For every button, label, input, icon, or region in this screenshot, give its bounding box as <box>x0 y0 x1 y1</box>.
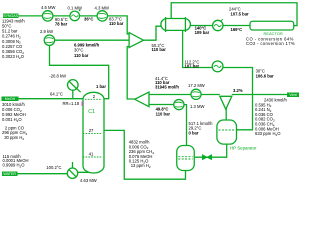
stream label Vent <box>287 92 299 97</box>
svg-text:SYNGAS: SYNGAS <box>3 14 19 18</box>
svg-text:HP Separator: HP Separator <box>230 146 257 151</box>
wire K2 to mixer M1 top inlet <box>107 16 129 34</box>
label reactor name <box>264 31 283 36</box>
wire splitter recycle to compressor B and mixer M2 <box>149 94 220 96</box>
label column tray 2 <box>93 94 96 99</box>
label stream E2 out <box>256 69 275 79</box>
label flash vapor stream <box>189 121 214 136</box>
wire K1 to cooler E1 <box>53 15 71 17</box>
valve V1 <box>203 155 212 160</box>
svg-text:0.001 H2O: 0.001 H2O <box>2 117 22 123</box>
label overhead pressure <box>96 84 106 89</box>
svg-text:CO2 - conversion 17%: CO2 - conversion 17% <box>246 41 295 46</box>
label stream E1 out <box>84 17 93 22</box>
wire HP separator vapor to splitter <box>225 109 227 121</box>
svg-text:27: 27 <box>89 128 94 133</box>
wire M1 outlet to HX cold inlet <box>144 26 162 40</box>
svg-text:4.6 MW: 4.6 MW <box>41 5 55 10</box>
label stream reactor out <box>229 7 249 17</box>
label stream HX hot out <box>185 59 200 68</box>
svg-text:169°C: 169°C <box>231 27 243 32</box>
svg-text:107 bar: 107 bar <box>185 64 200 69</box>
label condenser temp <box>50 91 63 96</box>
svg-text:13 ppm H2: 13 ppm H2 <box>131 163 151 169</box>
wire condenser link to column dome <box>69 81 81 92</box>
arrowhead into HX top <box>170 19 173 22</box>
svg-text:110 bar: 110 bar <box>156 112 171 117</box>
svg-text:64.1°C: 64.1°C <box>50 91 63 96</box>
wire column overhead vapor to compressor K3 <box>50 46 109 99</box>
heat exchanger HX shell <box>161 17 191 32</box>
compressor K2 <box>97 11 107 21</box>
wire E3 to reactor inlet <box>223 25 251 27</box>
splitter S1 <box>220 96 232 109</box>
wire reboiler stub <box>72 162 74 169</box>
label column tray 41 <box>89 151 94 156</box>
table vent composition <box>255 98 287 137</box>
svg-text:1.3 MW: 1.3 MW <box>190 104 204 109</box>
label reflux ratio <box>63 101 80 106</box>
mixer M2 <box>135 92 149 107</box>
svg-text:106.6 bar: 106.6 bar <box>256 74 275 79</box>
svg-text:110 bar: 110 bar <box>109 21 124 26</box>
table MeOH composition <box>2 102 28 141</box>
label duty E1 <box>68 5 82 10</box>
wire splitter purge to vent <box>232 94 287 96</box>
svg-text:0.9999 H2O: 0.9999 H2O <box>3 163 26 169</box>
compressor K3 <box>44 35 54 45</box>
label duty C <box>190 104 204 109</box>
wire E1 to K2 <box>79 15 98 17</box>
label duty condenser <box>49 74 66 79</box>
label duty K2 <box>95 5 109 10</box>
svg-text:0.1 MW: 0.1 MW <box>68 5 82 10</box>
distillation column C1 <box>83 92 104 173</box>
compressor C flash vapor <box>174 100 184 110</box>
label duty B <box>188 83 205 88</box>
label reactor conversions <box>246 36 295 46</box>
svg-text:100.2°C: 100.2°C <box>46 165 61 170</box>
svg-text:C1: C1 <box>88 109 95 115</box>
condenser <box>68 80 79 91</box>
cooler E1 <box>70 10 81 21</box>
svg-text:4.3 MW: 4.3 MW <box>95 5 109 10</box>
svg-text:1 bar: 1 bar <box>96 84 106 89</box>
stream label WATER <box>2 172 18 177</box>
reboiler <box>67 168 77 178</box>
wire K3 outlet to mixer M1 mid inlet <box>49 39 129 41</box>
label column tray 27 <box>89 128 94 133</box>
heater E3 <box>213 19 223 30</box>
svg-text:78 bar: 78 bar <box>55 22 68 27</box>
table column feed composition <box>129 140 155 169</box>
LP flash vessel <box>177 146 195 171</box>
svg-text:2.9 kW: 2.9 kW <box>40 29 53 34</box>
label HP Separator name <box>230 146 257 151</box>
mixer M1 <box>129 33 143 48</box>
label purge fraction <box>233 88 243 93</box>
svg-text:3.2%: 3.2% <box>233 88 243 93</box>
label bottoms temp <box>46 165 61 170</box>
svg-text:0.3023 H2O: 0.3023 H2O <box>2 54 25 60</box>
label stream M1 out <box>152 43 167 52</box>
label column name C1 <box>88 109 95 115</box>
svg-text:17.2 MW: 17.2 MW <box>188 83 205 88</box>
svg-text:110 bar: 110 bar <box>152 47 167 52</box>
wire recycle riser to mixer M1 bottom inlet <box>127 47 135 100</box>
compressor K1 <box>43 11 53 21</box>
svg-text:0 bar: 0 bar <box>189 130 199 135</box>
wire feed syngas to K1 <box>19 15 44 17</box>
svg-text:RR=1.18: RR=1.18 <box>63 101 80 106</box>
svg-text:WATER: WATER <box>3 172 16 176</box>
svg-text:109 bar: 109 bar <box>195 30 210 35</box>
svg-text:36°C: 36°C <box>84 17 93 22</box>
stream label SYNGAS <box>3 14 19 19</box>
label stream B out <box>155 76 179 90</box>
svg-text:107.5 bar: 107.5 bar <box>231 11 250 16</box>
svg-text:4.63 MW: 4.63 MW <box>80 178 97 183</box>
table syngas composition <box>2 18 25 60</box>
svg-text:Vent: Vent <box>289 93 296 97</box>
wire condenser drop leg <box>72 90 74 99</box>
wire E2 to HP separator inlet <box>223 68 253 130</box>
svg-text:-20.8 kW: -20.8 kW <box>49 74 66 79</box>
svg-text:31945 mol/h: 31945 mol/h <box>155 84 179 89</box>
reactor R1 <box>250 21 294 30</box>
wire reactor outlet to HX hot inlet (top run) <box>171 3 297 26</box>
wire LP flash vapor to compressor C <box>184 105 187 146</box>
label stream K1 out <box>55 17 68 26</box>
label stream HX cold out <box>195 25 210 35</box>
wire LP flash liquid to column feed <box>104 130 186 179</box>
stream label MeOH <box>2 97 19 101</box>
spec marker magenta <box>81 101 83 106</box>
wire HP separator liquid to valve and LP flash <box>194 144 227 157</box>
svg-text:110 bar: 110 bar <box>74 53 89 58</box>
wire reboiler to WATER product <box>18 173 68 175</box>
label stream E3 out <box>231 27 243 32</box>
table water composition <box>3 154 29 168</box>
label duty K1 <box>41 5 55 10</box>
label stream C out <box>156 107 171 117</box>
svg-text:41: 41 <box>89 151 94 156</box>
wire reboiler return to column bottom <box>78 167 93 173</box>
label stream K3 out <box>74 42 100 57</box>
label duty reboiler <box>80 178 97 183</box>
wire compressor C to mixer M2 bottom inlet <box>149 104 174 106</box>
compressor B recycle <box>191 89 201 99</box>
label stream K2 out <box>109 16 124 26</box>
svg-text:633 ppm H2O: 633 ppm H2O <box>255 131 281 137</box>
cooler E2 <box>212 61 223 72</box>
wire HX hot outlet to cooler E2 <box>183 31 213 68</box>
wire HX cold outlet to heater E3 <box>190 25 213 27</box>
svg-text:30 ppm H2: 30 ppm H2 <box>4 135 24 141</box>
label duty K3 <box>40 29 53 34</box>
svg-text:MeOH: MeOH <box>5 97 16 101</box>
wire condenser distillate to MeOH product <box>18 98 83 100</box>
HP separator vessel <box>217 120 237 144</box>
